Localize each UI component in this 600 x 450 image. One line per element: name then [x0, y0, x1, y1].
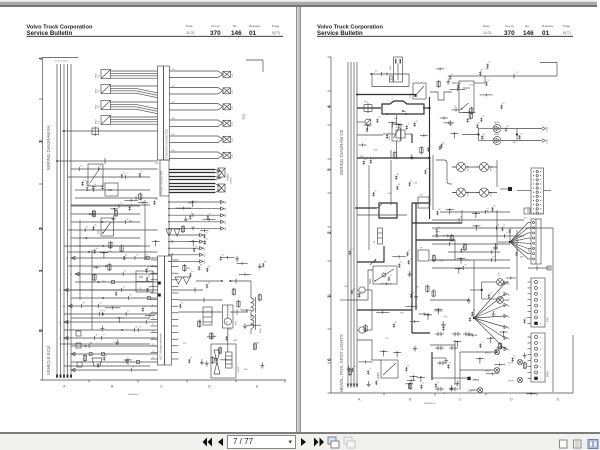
power bus wires — [55, 61, 72, 378]
splice field upper — [81, 163, 159, 260]
wire row 268 — [528, 266, 551, 271]
svg-text:No.: No. — [525, 24, 530, 28]
svg-text:87: 87 — [99, 303, 101, 305]
headlamp E306 — [453, 188, 469, 197]
two page layout icon (selected) — [588, 440, 598, 449]
junction block — [524, 208, 530, 220]
svg-text:0: 0 — [327, 358, 332, 361]
svg-text:C: C — [160, 385, 163, 389]
beam check lamp C113 — [497, 289, 509, 303]
coil stack 2 — [251, 314, 262, 334]
mid wire rows — [68, 166, 158, 253]
right page long wires — [357, 135, 517, 345]
relay F1 — [96, 70, 158, 79]
svg-text:11.03: 11.03 — [186, 31, 194, 35]
viewer top scrollbar strip — [0, 0, 597, 7]
connector CHASSIS CONNECTOR — [158, 66, 170, 160]
harness run X3 — [170, 102, 235, 111]
svg-text:Release: Release — [249, 24, 261, 28]
headlamp E303 — [453, 162, 469, 171]
svg-text:A40: A40 — [527, 208, 530, 213]
svg-text:Y03: Y03 — [242, 114, 246, 120]
svg-text:6(77): 6(77) — [563, 31, 571, 35]
splice field lower left — [83, 263, 154, 368]
svg-text:1: 1 — [327, 295, 332, 298]
svg-text:HEADL, POS, SPOT LIGHTS: HEADL, POS, SPOT LIGHTS — [339, 334, 344, 392]
fuse F9 box — [418, 248, 429, 262]
connector A36 — [528, 219, 542, 264]
pin wire 2 — [168, 207, 227, 211]
bottom cluster wires — [455, 340, 494, 390]
fuse F4 box — [418, 195, 429, 209]
rp mid rows — [432, 209, 524, 271]
svg-text:LW8846-01: LW8846-01 — [128, 394, 140, 396]
left header title — [27, 25, 284, 37]
solenoid coil Y03 — [229, 279, 256, 319]
ecu wire rows — [59, 255, 158, 373]
fuse F31 — [357, 102, 381, 114]
svg-text:B+: B+ — [402, 109, 406, 113]
junction box B+ — [382, 101, 424, 115]
lamp loop wires — [433, 155, 497, 210]
tick pair rows bottom — [435, 332, 472, 391]
fuse box F80 — [136, 271, 153, 292]
svg-text:10: 10 — [123, 287, 125, 289]
svg-text:65: 65 — [493, 257, 495, 259]
pin wire 10 — [168, 259, 206, 263]
svg-text:79: 79 — [70, 274, 72, 276]
pane divider — [296, 7, 301, 433]
wire fan 2 — [498, 223, 528, 259]
first page button — [203, 438, 213, 447]
svg-text:77: 77 — [102, 335, 104, 337]
svg-text:WIRING DIAGRAM CE: WIRING DIAGRAM CE — [339, 130, 344, 175]
svg-text:2T8X3: 2T8X3 — [473, 380, 480, 382]
relay loop lower — [357, 246, 384, 265]
bus tap wire — [62, 127, 158, 137]
svg-text:31: 31 — [148, 287, 150, 289]
svg-text:812A: 812A — [546, 126, 549, 131]
row 277 wires — [172, 288, 203, 293]
svg-text:Service Bulletin: Service Bulletin — [317, 30, 363, 37]
svg-text:5(77): 5(77) — [272, 31, 280, 35]
right header table — [483, 24, 571, 37]
left ruler numbers — [38, 57, 43, 332]
svg-text:8094A: 8094A — [494, 121, 500, 124]
svg-text:27: 27 — [59, 290, 61, 292]
svg-text:C: C — [459, 398, 462, 402]
diode D2 — [479, 134, 549, 145]
svg-text:D: D — [208, 385, 211, 389]
svg-text:16: 16 — [152, 357, 154, 359]
pin wire 4 — [168, 220, 227, 224]
svg-text:Date: Date — [483, 24, 490, 28]
fuse holder 8094 — [390, 57, 403, 82]
A317 pin stubs — [151, 258, 179, 359]
svg-text:E307: E307 — [491, 191, 493, 197]
svg-text:E108: E108 — [238, 366, 240, 372]
svg-text:41: 41 — [59, 338, 61, 340]
svg-text:542: 542 — [172, 86, 175, 88]
right frame line — [572, 335, 574, 393]
svg-text:M: M — [226, 321, 228, 325]
svg-text:3: 3 — [327, 168, 332, 171]
svg-text:541: 541 — [172, 69, 175, 71]
svg-text:E303: E303 — [468, 165, 470, 171]
dark junction — [500, 187, 512, 191]
harness run X4 — [170, 118, 235, 127]
right bus wires — [347, 62, 358, 387]
pin wire 1 — [168, 200, 227, 204]
svg-text:39: 39 — [464, 265, 466, 267]
svg-text:32: 32 — [100, 311, 102, 313]
diode feed — [462, 129, 518, 141]
svg-text:WIRING DIAGRAM 8A: WIRING DIAGRAM 8A — [46, 125, 51, 170]
svg-text:69: 69 — [146, 255, 148, 257]
relay 8T — [430, 76, 485, 113]
svg-text:370: 370 — [210, 30, 221, 37]
svg-text:87: 87 — [509, 305, 511, 307]
wire fan junction — [473, 260, 511, 351]
striped box D12 — [200, 307, 212, 325]
svg-text:01: 01 — [542, 30, 550, 37]
relay 800A — [369, 266, 397, 284]
right header title — [317, 25, 573, 37]
pin column wire — [168, 196, 170, 256]
left ruler line — [39, 57, 78, 380]
pin wire 8 — [168, 246, 206, 250]
right bottom frame — [331, 393, 573, 396]
svg-text:33: 33 — [139, 327, 141, 329]
svg-text:2: 2 — [38, 227, 43, 230]
pin wire 6 — [168, 233, 206, 237]
svg-text:26: 26 — [94, 187, 96, 189]
relay F2 — [96, 85, 158, 98]
svg-text:10: 10 — [152, 318, 154, 320]
svg-text:37: 37 — [124, 271, 126, 273]
connector A40 — [517, 168, 551, 214]
svg-text:84: 84 — [135, 327, 137, 329]
svg-text:85: 85 — [96, 335, 98, 337]
svg-text:Group: Group — [211, 24, 220, 28]
svg-text:55: 55 — [66, 258, 68, 260]
corner bracket right — [540, 63, 557, 77]
svg-text:86: 86 — [509, 294, 511, 296]
thick feed wires top — [357, 97, 431, 219]
svg-text:370: 370 — [504, 30, 515, 37]
connector FRAME CONNECTOR — [160, 160, 169, 196]
svg-text:800A: 800A — [369, 278, 372, 284]
svg-text:90: 90 — [509, 338, 511, 340]
svg-text:01: 01 — [249, 30, 257, 37]
svg-text:8767E: 8767E — [508, 381, 514, 383]
svg-text:Release: Release — [542, 24, 554, 28]
connector A317 ECU — [158, 256, 172, 365]
svg-text:11.03: 11.03 — [483, 31, 491, 35]
pin wire 9 — [168, 253, 206, 257]
frame run group 2 — [169, 168, 233, 193]
svg-text:E304: E304 — [491, 165, 493, 171]
svg-text:98: 98 — [129, 295, 131, 297]
headlamp E307 — [476, 188, 492, 197]
connector B45B — [528, 333, 550, 382]
svg-text:800B: 800B — [377, 372, 380, 378]
rp upper mid field — [436, 62, 523, 150]
svg-text:49: 49 — [127, 311, 129, 313]
svg-text:26: 26 — [497, 225, 499, 227]
svg-text:544: 544 — [172, 118, 175, 120]
last page button — [314, 438, 324, 447]
svg-text:21: 21 — [120, 203, 122, 205]
svg-text:CONN: CONN — [231, 177, 233, 184]
dropdown tick — [287, 441, 291, 443]
svg-text:2: 2 — [327, 231, 332, 234]
svg-text:12: 12 — [152, 331, 154, 333]
svg-text:545: 545 — [172, 134, 175, 136]
spot lamp cluster — [468, 349, 523, 392]
rp left upper field — [358, 117, 432, 196]
enclosure line right — [525, 228, 553, 392]
left bottom frame — [40, 380, 286, 383]
svg-text:86: 86 — [132, 367, 134, 369]
twist pair mid — [175, 277, 190, 284]
thick distribution wires — [357, 203, 462, 333]
lamp feed junction — [470, 243, 497, 299]
svg-text:0: 0 — [38, 329, 43, 332]
relay 800B — [377, 360, 398, 378]
svg-text:4: 4 — [327, 105, 332, 108]
svg-text:71: 71 — [66, 370, 68, 372]
svg-text:Date: Date — [186, 24, 193, 28]
bottom toolbar — [0, 432, 600, 450]
svg-text:31 30 15 54 58: 31 30 15 54 58 — [55, 61, 68, 63]
svg-text:543: 543 — [172, 102, 175, 104]
svg-text:61: 61 — [147, 319, 149, 321]
harness run X6 — [170, 150, 235, 159]
next view icon (disabled) — [344, 437, 355, 448]
svg-text:146: 146 — [523, 30, 534, 37]
connector B7A — [528, 278, 550, 327]
pin wire 7 — [168, 240, 206, 244]
svg-text:28: 28 — [66, 354, 68, 356]
switch K30 — [357, 287, 372, 297]
svg-text:VEHICLE ECU: VEHICLE ECU — [46, 346, 51, 375]
previous page button — [218, 438, 223, 446]
svg-text:Group: Group — [505, 24, 514, 28]
svg-text:59: 59 — [63, 306, 65, 308]
svg-text:A317 (36 pole connector): A317 (36 pole connector) — [160, 333, 163, 360]
svg-text:8094B: 8094B — [494, 134, 500, 136]
svg-text:1: 1 — [152, 258, 153, 260]
svg-text:FRAME CONNECTOR: FRAME CONNECTOR — [161, 170, 164, 195]
svg-text:47: 47 — [506, 233, 508, 235]
feed wire 76 — [448, 72, 557, 79]
svg-text:88: 88 — [509, 316, 511, 318]
left bottom letters — [63, 385, 259, 389]
relay K13 — [409, 83, 426, 99]
continuous layout icon — [574, 440, 582, 448]
svg-text:812B: 812B — [547, 138, 549, 143]
svg-text:FRAME: FRAME — [227, 173, 230, 181]
bus tap wire 2 — [56, 158, 157, 164]
harness run X1 — [170, 69, 235, 78]
left page sheet — [0, 7, 296, 432]
left header table — [186, 24, 280, 37]
headlamp E304 — [476, 162, 492, 171]
box 500A — [86, 164, 104, 186]
svg-text:16: 16 — [136, 255, 138, 257]
relay loop upper — [355, 203, 397, 218]
svg-text:F80: F80 — [139, 276, 144, 279]
pin wire 3 — [168, 213, 227, 217]
svg-text:96: 96 — [99, 166, 101, 168]
frame run 2 — [169, 177, 221, 180]
svg-text:87: 87 — [80, 166, 82, 168]
svg-text:67: 67 — [127, 174, 129, 176]
rp mid field — [432, 206, 530, 274]
switch K31 — [357, 327, 372, 333]
top-right corner bracket — [246, 60, 263, 72]
svg-text:Page: Page — [563, 24, 571, 28]
rp lower mid field — [432, 277, 536, 396]
thick feed wire 92 — [356, 94, 416, 98]
page number box — [227, 435, 296, 449]
svg-text:15: 15 — [152, 351, 154, 353]
svg-text:99: 99 — [103, 311, 105, 313]
right ruler numbers — [327, 105, 332, 361]
harness run X5 — [170, 134, 235, 143]
top cluster wires — [370, 71, 409, 87]
beam check lamp C103 — [497, 271, 509, 285]
svg-text:11: 11 — [152, 324, 154, 326]
svg-text:K13: K13 — [409, 93, 412, 98]
pump unit box — [211, 344, 240, 378]
relay F4 — [96, 116, 158, 125]
switch S1 — [357, 119, 371, 125]
svg-text:4: 4 — [38, 57, 43, 60]
svg-text:CHASSIS CONNECTOR: CHASSIS CONNECTOR — [165, 129, 169, 158]
fuse F2 — [383, 127, 412, 143]
svg-text:No.: No. — [233, 24, 238, 28]
twist symbols — [166, 229, 180, 236]
splice field mid right — [175, 201, 215, 252]
svg-text:546: 546 — [172, 150, 175, 152]
module wires — [179, 280, 228, 352]
svg-text:8767D: 8767D — [508, 363, 514, 365]
fuse cartridge — [374, 228, 383, 244]
right bottom letters — [358, 398, 560, 402]
svg-text:D: D — [510, 398, 513, 402]
svg-text:42: 42 — [59, 322, 61, 324]
svg-text:85: 85 — [509, 283, 511, 285]
right page sheet — [301, 7, 600, 432]
previous view icon — [328, 437, 339, 448]
motor M31 — [223, 305, 238, 328]
svg-text:Service Bulletin: Service Bulletin — [27, 30, 73, 37]
svg-text:91: 91 — [509, 349, 511, 351]
svg-text:B7A: B7A — [547, 317, 550, 322]
harness run X2 — [170, 86, 235, 95]
svg-text:146: 146 — [231, 30, 242, 37]
pin wire 5 — [168, 226, 227, 230]
diode D1 — [479, 121, 549, 133]
svg-text:LW8846-02: LW8846-02 — [424, 403, 436, 405]
long wires left page — [61, 200, 151, 366]
svg-text:E306: E306 — [468, 191, 470, 197]
svg-text:9: 9 — [152, 311, 153, 313]
svg-text:89: 89 — [509, 327, 511, 329]
svg-text:35: 35 — [86, 227, 88, 229]
rp lower left field — [344, 249, 432, 390]
left bottom loop wires — [340, 270, 381, 360]
relay K15 — [389, 115, 401, 159]
svg-text:Page: Page — [272, 24, 280, 28]
single page layout icon — [560, 440, 568, 448]
svg-text:B45B: B45B — [547, 371, 550, 377]
splice field lower right — [179, 255, 267, 371]
thick corner wire — [432, 352, 480, 382]
svg-text:28: 28 — [83, 303, 85, 305]
svg-text:3: 3 — [38, 140, 43, 143]
relay K20 — [97, 218, 114, 236]
relay F3 — [96, 101, 158, 114]
right ruler line — [328, 57, 332, 393]
svg-text:1: 1 — [38, 269, 43, 272]
frame run 1 — [169, 170, 221, 173]
next page button — [301, 438, 306, 446]
box B03 — [105, 183, 118, 196]
svg-text:B03: B03 — [108, 189, 113, 192]
